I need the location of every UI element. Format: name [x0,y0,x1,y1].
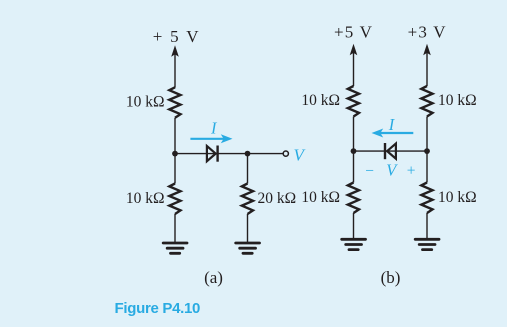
ground symbol (b) right [415,239,439,249]
wire node C down to R6 [353,151,355,182]
+3V supply arrow (b) [423,44,431,86]
wire node A to output terminal [175,153,283,155]
resistor R1 10k (a top) [169,87,180,118]
resistor R3 20k (a bottom-right) [242,184,253,215]
resistor R7 10k (b bottom-right) [421,183,432,214]
ground symbol (a) left [163,243,187,253]
diode D2 (b) [385,143,396,159]
svg-text:10 kΩ: 10 kΩ [438,189,477,206]
resistor R2 10k (a bottom-left) [169,184,180,215]
wire R3 to ground [247,214,249,243]
ground symbol (a) right [236,243,260,253]
resistor R5 10k (b top-right) [421,86,432,117]
node C junction dot [351,148,357,154]
svg-text:+3 V: +3 V [408,22,447,41]
svg-text:10 kΩ: 10 kΩ [438,92,477,109]
wire node C to node D [354,150,428,152]
svg-text:10 kΩ: 10 kΩ [126,94,165,111]
wire node D down to R7 [426,151,428,182]
output terminal circle [283,151,288,156]
resistor R4 10k (b top-left) [348,86,359,117]
wire R7 to ground [426,213,428,239]
svg-text:10 kΩ: 10 kΩ [301,92,340,109]
+5V supply arrow (a) [171,45,179,87]
current arrow I (b) [372,129,414,138]
wire R2 to ground [174,214,176,243]
+5V supply arrow (b) [350,44,358,86]
svg-text:+5 V: +5 V [334,22,373,41]
svg-text:+: + [407,162,416,179]
svg-text:+ 5 V: + 5 V [153,27,201,46]
wire R6 to ground [353,213,355,239]
current arrow I (a) [190,134,232,143]
resistor R6 10k (b bottom-left) [348,183,359,214]
wire R4 to node C [353,117,355,152]
diode D1 (a) [207,146,218,162]
wire R1 to node A [174,118,176,154]
svg-text:10 kΩ: 10 kΩ [301,189,340,206]
node A junction dot [172,151,178,157]
svg-text:20 kΩ: 20 kΩ [258,190,297,207]
wire R5 to node D [426,117,428,152]
node D junction dot [424,148,430,154]
svg-text:(b): (b) [381,268,401,287]
ground symbol (b) left [342,239,366,249]
svg-text:10 kΩ: 10 kΩ [126,190,165,207]
polarity label minus V plus (b) [365,160,415,179]
wire node A down to R2 [174,154,176,184]
svg-text:Figure P4.10: Figure P4.10 [115,300,201,317]
svg-text:−: − [365,162,374,179]
svg-text:(a): (a) [204,268,223,287]
node B junction dot [245,151,251,157]
wire node B down to R3 [247,154,249,184]
